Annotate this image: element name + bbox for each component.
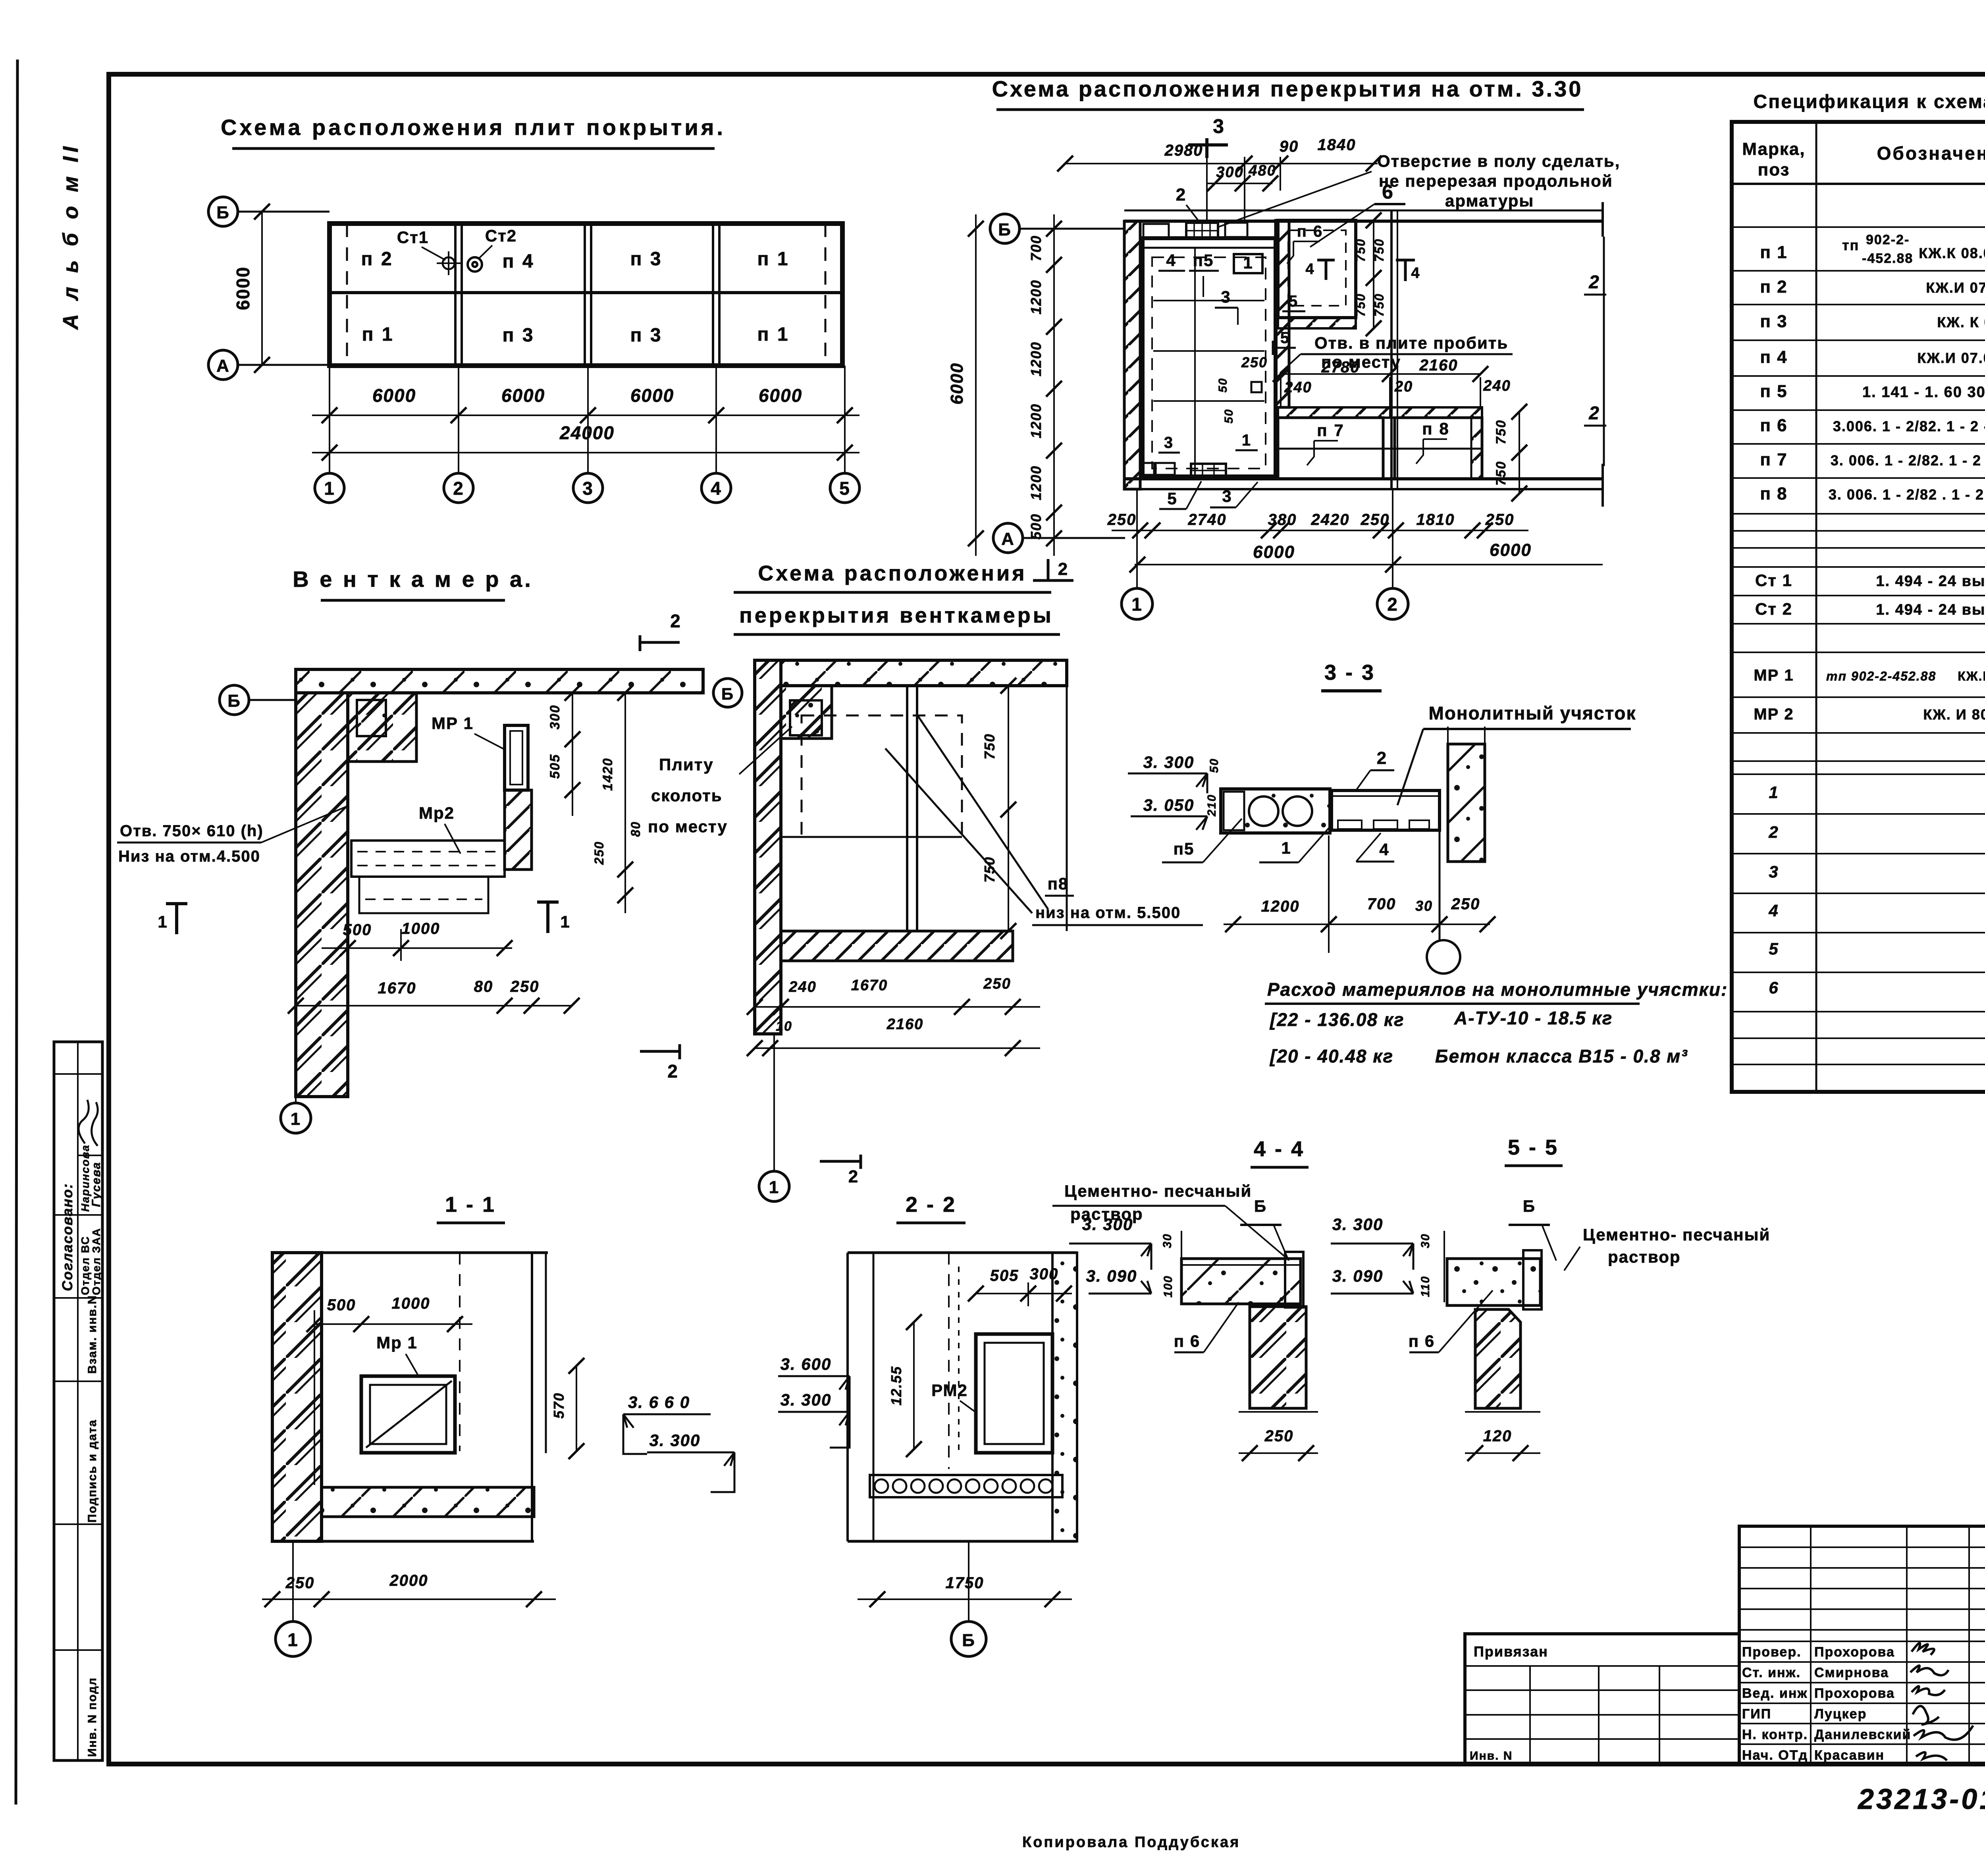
axis circle 1 middle plan — [1122, 489, 1152, 619]
svg-text:500: 500 — [1028, 513, 1044, 540]
axis circle B vent — [220, 685, 296, 715]
s1-1 bottom lines — [272, 1487, 534, 1541]
spec row P2 — [1760, 277, 1985, 297]
svg-text:п 1: п 1 — [362, 324, 394, 345]
svg-text:3. 006. 1 - 2/82. 1 - 2 - 1.: 3. 006. 1 - 2/82. 1 - 2 - 1.0 - 082 — [1831, 452, 1985, 469]
s2-2 bottom hollow slab — [870, 1475, 1062, 1497]
svg-text:1200: 1200 — [1028, 403, 1044, 438]
spec row pos 1 — [1769, 781, 1985, 811]
note: hole in plate punch on site — [1280, 334, 1513, 373]
svg-text:750: 750 — [1353, 238, 1368, 262]
vent floor concrete square — [790, 700, 822, 735]
svg-text:10: 10 — [776, 1019, 792, 1034]
svg-text:1: 1 — [1131, 594, 1143, 615]
spec row P7 — [1760, 450, 1985, 469]
dims 240 20 240 — [1281, 377, 1511, 418]
spec row pos 3 — [1769, 860, 1985, 890]
svg-text:1: 1 — [1243, 253, 1253, 272]
svg-text:80: 80 — [628, 821, 643, 837]
spec table outer border — [1732, 122, 1985, 1092]
svg-text:МР 1: МР 1 — [1754, 667, 1794, 684]
svg-text:5: 5 — [839, 478, 850, 499]
svg-text:Вед. инж: Вед. инж — [1742, 1686, 1808, 1701]
svg-text:п 8: п 8 — [1422, 419, 1449, 438]
svg-text:902-2-: 902-2- — [1866, 232, 1910, 247]
axis circle A left plan — [208, 350, 330, 380]
roof plan outline — [330, 224, 842, 366]
svg-text:КЖ.К 08.00.00.00-01: КЖ.К 08.00.00.00-01 — [1919, 245, 1985, 261]
s4-4 elevation 3.090 — [1086, 1267, 1151, 1294]
svg-text:6000: 6000 — [947, 362, 967, 405]
svg-text:250: 250 — [983, 976, 1011, 992]
s4-4 elevation 3.300 — [1069, 1215, 1151, 1270]
svg-text:Б: Б — [216, 203, 230, 222]
note hole 750x610 — [117, 806, 348, 865]
svg-text:4: 4 — [1166, 251, 1176, 270]
section 5-5 title — [1505, 1136, 1563, 1166]
svg-text:В е н т к а м е р а.: В е н т к а м е р а. — [293, 567, 533, 592]
label 5 flag at note — [1273, 329, 1296, 355]
svg-text:1200: 1200 — [1261, 898, 1300, 915]
dimension 24000 — [312, 422, 860, 461]
svg-text:Цементно- песчаный: Цементно- песчаный — [1583, 1225, 1770, 1244]
s4-4 mortar strip right — [1285, 1252, 1303, 1307]
vent floor right edge line — [1066, 686, 1068, 931]
left stamp column outer — [54, 1042, 102, 1760]
svg-text:п 1: п 1 — [757, 249, 789, 270]
vent floor left wall — [755, 660, 781, 1034]
sheet left edge trim line — [16, 60, 17, 1805]
s1-1 bottom slab concrete — [322, 1487, 534, 1517]
stamp signatures — [79, 1100, 98, 1146]
svg-text:4: 4 — [711, 478, 722, 499]
axis extension lines below roof plan — [330, 366, 845, 472]
svg-text:Ст 1: Ст 1 — [1755, 571, 1792, 590]
svg-text:сколоть: сколоть — [651, 786, 723, 805]
upper interior wall block — [348, 693, 416, 762]
svg-text:750: 750 — [1372, 238, 1386, 262]
s5-5 elevation 3.300 — [1331, 1215, 1413, 1270]
s2-2 dims 505 300 — [968, 1265, 1072, 1306]
svg-text:50: 50 — [1216, 378, 1230, 392]
spec row P4 — [1760, 347, 1985, 367]
section mark 2 bottom vent floor — [820, 1155, 861, 1186]
svg-text:п 8: п 8 — [1760, 484, 1787, 503]
section 1-1 title — [437, 1193, 505, 1223]
svg-text:2: 2 — [670, 611, 681, 631]
svg-text:50: 50 — [1208, 758, 1221, 773]
svg-text:3. 090: 3. 090 — [1086, 1267, 1137, 1285]
axis circle B middle plan — [990, 214, 1125, 243]
svg-text:п5: п5 — [1193, 251, 1214, 270]
svg-text:Прохорова: Прохорова — [1814, 1645, 1895, 1660]
svg-text:2: 2 — [848, 1167, 859, 1186]
svg-text:1: 1 — [1242, 432, 1251, 449]
plate P7 rect — [1278, 418, 1383, 479]
svg-text:Отв. 750× 610 (h): Отв. 750× 610 (h) — [120, 822, 264, 840]
s1-1 left wall hatched — [272, 1253, 322, 1541]
spec row pos 2 — [1768, 820, 1985, 850]
svg-text:Цементно- песчаный: Цементно- песчаный — [1064, 1182, 1252, 1200]
section 2-2 title — [896, 1193, 966, 1223]
s4-4 note cement mortar — [1052, 1182, 1286, 1258]
label 5 at P6 bottom — [1282, 293, 1305, 311]
svg-text:КЖ.К 00.01.00.00: КЖ.К 00.01.00.00 — [1958, 669, 1985, 683]
svg-text:1. 141 - 1. 60 3000-82: 1. 141 - 1. 60 3000-82 — [1862, 384, 1985, 401]
svg-text:Привязан: Привязан — [1474, 1643, 1548, 1660]
spec table header row line — [1732, 183, 1985, 185]
svg-text:30: 30 — [1419, 1233, 1432, 1248]
ref label 6 — [1310, 181, 1405, 247]
svg-text:1: 1 — [560, 912, 570, 931]
svg-text:Гусева: Гусева — [90, 1162, 103, 1207]
svg-text:п 3: п 3 — [630, 249, 662, 270]
svg-text:Б: Б — [227, 691, 241, 711]
axis circle 1 vent floor — [759, 1034, 789, 1201]
plates P7 P8 top hatch band — [1278, 407, 1482, 418]
svg-text:1810: 1810 — [1416, 511, 1455, 528]
svg-text:6000: 6000 — [372, 385, 416, 406]
monolithic rect 3-3 — [1332, 791, 1440, 830]
left wall hatched — [1124, 221, 1140, 489]
T symbol and 4 inside P6 — [1305, 260, 1335, 280]
svg-text:2420: 2420 — [1311, 511, 1350, 528]
svg-text:3: 3 — [1222, 487, 1232, 505]
svg-text:2: 2 — [453, 478, 464, 499]
label p8 niz na otm 5.500 — [1032, 874, 1203, 925]
svg-text:3. 300: 3. 300 — [781, 1390, 832, 1409]
svg-text:Б: Б — [962, 1631, 975, 1650]
title Ventkamera — [293, 567, 533, 600]
s5-5 bottom dim 120 — [1465, 1412, 1540, 1461]
svg-text:1200: 1200 — [1028, 465, 1044, 500]
plate P8 rect — [1395, 418, 1482, 479]
svg-text:Взам. инв.N: Взам. инв.N — [86, 1295, 99, 1374]
svg-text:3: 3 — [1213, 115, 1225, 137]
s2-2 right wall concrete band — [1052, 1253, 1077, 1541]
spec row P5 — [1760, 382, 1985, 401]
spec row MR2 — [1754, 706, 1985, 723]
section mark 1 right — [537, 902, 570, 933]
svg-text:[20 - 40.48 кг: [20 - 40.48 кг — [1269, 1046, 1393, 1066]
svg-text:700: 700 — [1367, 895, 1396, 913]
svg-text:Б: Б — [721, 684, 734, 703]
svg-text:Провер.: Провер. — [1742, 1645, 1802, 1660]
svg-text:Бетон класса В15 - 0.8 м³: Бетон класса В15 - 0.8 м³ — [1435, 1046, 1688, 1066]
vent room dashed inset — [1152, 257, 1266, 469]
svg-text:Марка,: Марка, — [1742, 139, 1805, 159]
svg-text:2160: 2160 — [887, 1016, 924, 1033]
MR1 frame — [505, 725, 528, 790]
svg-text:2: 2 — [1588, 272, 1600, 292]
svg-text:ГИП: ГИП — [1742, 1706, 1771, 1722]
svg-text:5: 5 — [1167, 489, 1177, 508]
svg-text:240: 240 — [788, 979, 816, 995]
labels P5 1 4 s33 — [1162, 819, 1394, 862]
svg-text:240: 240 — [1483, 378, 1511, 394]
vent room plate joint lines — [1153, 248, 1264, 475]
vent dims 80 250 — [592, 821, 643, 913]
svg-text:Мр2: Мр2 — [419, 804, 455, 822]
svg-text:п 1: п 1 — [1760, 243, 1787, 262]
bottom dimension chain small — [1107, 511, 1528, 538]
svg-text:250: 250 — [1451, 895, 1480, 913]
svg-text:750: 750 — [981, 856, 998, 883]
spec row P8 — [1760, 484, 1985, 507]
s2-2 axis circle B — [951, 1541, 986, 1656]
svg-text:Прохорова: Прохорова — [1814, 1686, 1895, 1701]
svg-text:Б: Б — [998, 220, 1012, 239]
svg-text:3. 090: 3. 090 — [1332, 1267, 1384, 1285]
right vertical dims 750 750 at plates — [1494, 404, 1527, 501]
materials line 2 — [1269, 1046, 1688, 1066]
svg-text:2: 2 — [667, 1061, 678, 1082]
title: scheme of roof slabs — [221, 115, 726, 148]
axis circle 1 vent — [281, 1097, 311, 1133]
plates inner line — [1278, 448, 1482, 450]
upper dimensions 2980 90 1840 — [1057, 136, 1382, 222]
svg-text:п 1: п 1 — [757, 324, 789, 345]
svg-text:500: 500 — [327, 1296, 356, 1314]
s2-2 bottom band — [848, 1497, 1077, 1541]
dimension chain 6000 x4 — [312, 385, 860, 423]
title block signatures scribbles — [1910, 1643, 1973, 1760]
svg-text:Ст1: Ст1 — [397, 228, 429, 247]
vent floor top slab band — [781, 660, 1067, 686]
svg-text:Луцкер: Луцкер — [1814, 1706, 1867, 1722]
svg-text:Инв. N подл: Инв. N подл — [86, 1677, 99, 1757]
dims 2780 2160 over plates — [1273, 357, 1488, 382]
s1-1 elevation 3.300 — [647, 1431, 734, 1492]
s5-5 B flag — [1509, 1197, 1556, 1261]
svg-text:Инв. N: Инв. N — [1470, 1749, 1513, 1762]
svg-text:п5: п5 — [1174, 839, 1195, 858]
svg-text:12.55: 12.55 — [888, 1366, 904, 1406]
s1-1 dim 570 — [551, 1358, 584, 1459]
section cut line 2-2 through plan — [1584, 237, 1606, 466]
axis circle A middle plan — [993, 523, 1125, 553]
svg-text:Отдел ВС: Отдел ВС — [79, 1236, 91, 1295]
svg-text:250: 250 — [285, 1574, 315, 1592]
interior wall column hatched — [1276, 220, 1289, 407]
svg-text:250: 250 — [510, 978, 540, 995]
svg-text:Отверстие в полу сделать,: Отверстие в полу сделать, — [1377, 152, 1620, 170]
vent floor dims 10 2160 — [747, 1016, 1040, 1056]
spec row pos 5 — [1769, 937, 1985, 967]
svg-text:3. 600: 3. 600 — [781, 1355, 832, 1373]
svg-text:Расход материялов на монолитны: Расход материялов на монолитные учястки: — [1267, 979, 1728, 1000]
spec row St2 — [1755, 600, 1985, 618]
svg-text:1: 1 — [158, 912, 168, 931]
svg-text:1200: 1200 — [1028, 341, 1044, 376]
svg-text:2: 2 — [1176, 185, 1186, 204]
svg-text:п 7: п 7 — [1760, 450, 1787, 469]
roof plan middle joint line — [330, 291, 842, 294]
svg-text:250: 250 — [592, 841, 606, 865]
right wall concrete 3-3 — [1448, 727, 1485, 862]
spec row St1 — [1755, 571, 1985, 590]
spec row pos 6 — [1769, 976, 1985, 1006]
svg-text:п 3: п 3 — [630, 325, 662, 346]
s5-5 label P6 — [1409, 1290, 1493, 1352]
s5-5 small dims 30 110 — [1419, 1231, 1444, 1302]
svg-text:арматуры: арматуры — [1445, 191, 1534, 210]
svg-text:1000: 1000 — [402, 920, 440, 937]
s1-1 dims 500 1000 — [306, 1295, 472, 1485]
svg-text:250: 250 — [1107, 511, 1137, 528]
svg-text:3: 3 — [582, 478, 594, 499]
svg-text:Плиту: Плиту — [659, 755, 714, 774]
detail circle mark — [1427, 832, 1460, 974]
svg-text:80: 80 — [474, 978, 493, 995]
svg-text:1: 1 — [1281, 839, 1291, 857]
s4-4 bottom dim 250 — [1239, 1412, 1318, 1461]
section 4-4 title — [1251, 1137, 1309, 1167]
svg-text:КЖ.И 07.00.00.00-01: КЖ.И 07.00.00.00-01 — [1917, 350, 1985, 366]
svg-text:505: 505 — [547, 754, 563, 779]
stakan mark St2 — [468, 226, 517, 272]
spec table header texts — [1742, 139, 1985, 179]
svg-text:6000: 6000 — [630, 385, 674, 406]
svg-text:750: 750 — [1494, 420, 1509, 445]
svg-text:2: 2 — [1588, 403, 1600, 423]
svg-text:480: 480 — [1248, 162, 1276, 179]
plate labels P7 P8 — [1307, 419, 1450, 465]
svg-text:250: 250 — [1264, 1427, 1294, 1445]
below plan labels 5 3 — [1159, 481, 1258, 509]
s4-4 slab concrete — [1181, 1259, 1301, 1304]
svg-text:2980: 2980 — [1164, 142, 1203, 159]
label MR1 — [432, 714, 503, 749]
ref labels inside room — [1158, 185, 1268, 453]
svg-text:6: 6 — [1769, 978, 1779, 997]
svg-text:РМ2: РМ2 — [931, 1381, 968, 1400]
stamp texts rotated — [59, 1144, 103, 1757]
svg-text:750: 750 — [1372, 293, 1386, 316]
axis circle B left plan — [208, 197, 330, 226]
svg-text:1: 1 — [1769, 783, 1779, 802]
svg-text:1670: 1670 — [851, 977, 888, 994]
T symbol 4 right — [1396, 260, 1420, 281]
vent floor dims 750 750 — [981, 678, 1016, 939]
vent floor dims 240 1670 250 — [747, 976, 1040, 1015]
svg-text:2: 2 — [1768, 823, 1779, 841]
s1-1 axis circle 1 — [276, 1541, 310, 1656]
svg-text:КЖ. И 80. 02. 00. 00: КЖ. И 80. 02. 00. 00 — [1923, 706, 1985, 723]
s1-1 top line — [272, 1253, 548, 1541]
svg-text:п 3: п 3 — [1760, 312, 1787, 331]
svg-text:5: 5 — [1280, 329, 1290, 347]
section 3-3 title — [1321, 661, 1382, 691]
svg-text:3. 300: 3. 300 — [1143, 753, 1195, 771]
svg-text:Б: Б — [1523, 1197, 1536, 1215]
svg-text:4: 4 — [1768, 901, 1779, 920]
svg-text:тп 902-2-452.88: тп 902-2-452.88 — [1826, 669, 1936, 683]
svg-text:Спецификация к схемам распо: Спецификация к схемам расположения плит … — [1754, 91, 1985, 112]
svg-text:1750: 1750 — [946, 1574, 984, 1592]
subroom P6 bottom hatch band — [1278, 318, 1356, 328]
axis circles 1-5 — [315, 473, 860, 503]
MR2 band — [351, 841, 505, 913]
svg-text:А-ТУ-10 - 18.5 кг: А-ТУ-10 - 18.5 кг — [1454, 1008, 1613, 1028]
s5-5 column hatched — [1475, 1309, 1521, 1408]
svg-text:210: 210 — [1205, 794, 1218, 817]
s4-4 label P6 — [1174, 1302, 1239, 1352]
section mark 3 top — [1188, 115, 1228, 221]
handwritten archive number — [1857, 1777, 1985, 1815]
elevation 3.300 s33 — [1128, 753, 1207, 793]
svg-text:750: 750 — [1494, 461, 1509, 486]
section mark 2 top — [640, 611, 681, 651]
s4-4 B flag — [1240, 1197, 1289, 1261]
svg-text:Н. контр.: Н. контр. — [1742, 1727, 1808, 1742]
left dimension chain 700 1200x4 500 — [1028, 214, 1062, 556]
svg-text:3: 3 — [1221, 287, 1231, 306]
s2-2 RM2 frame — [976, 1334, 1052, 1453]
svg-text:1. 494 - 24 вып. 1: 1. 494 - 24 вып. 1 — [1876, 602, 1985, 618]
s1-1 label Mr1 — [376, 1333, 418, 1375]
axis circle B vent floor — [713, 679, 742, 707]
vent dims 1670 80 250 — [288, 978, 580, 1014]
svg-text:Ст. инж.: Ст. инж. — [1742, 1665, 1801, 1680]
section mark 2 top vent floor — [1033, 559, 1073, 580]
svg-text:2: 2 — [1377, 748, 1387, 768]
svg-text:А: А — [216, 356, 230, 376]
svg-text:6000: 6000 — [233, 266, 253, 310]
title: scheme of vent floor line1 — [734, 561, 1051, 592]
svg-text:1: 1 — [291, 1109, 301, 1129]
svg-text:Схема расположения перекрыти: Схема расположения перекрытия на отм. 3.… — [992, 76, 1583, 101]
materials line 1 — [1269, 1008, 1613, 1030]
label P6 — [1287, 223, 1323, 264]
s1-1 elevation 3.660 — [623, 1393, 711, 1454]
hollow core slab section 3-3 — [1221, 789, 1330, 833]
s1-1 bottom dims 250 2000 — [262, 1572, 556, 1607]
svg-text:[22 - 136.08 кг: [22 - 136.08 кг — [1269, 1009, 1405, 1030]
svg-text:3: 3 — [1164, 434, 1174, 451]
stakan mark St1 — [397, 228, 461, 275]
plate joint lines — [347, 224, 825, 366]
s5-5 elevation 3.090 — [1331, 1267, 1413, 1294]
svg-text:2 - 2: 2 - 2 — [906, 1193, 956, 1217]
svg-text:1200: 1200 — [1028, 280, 1044, 314]
svg-text:Смирнова: Смирнова — [1814, 1665, 1889, 1680]
svg-text:1840: 1840 — [1318, 136, 1356, 154]
s2-2 dashed verticals — [949, 1253, 959, 1469]
svg-text:2: 2 — [1058, 559, 1068, 579]
svg-text:2: 2 — [1387, 594, 1398, 615]
spec row P6 — [1760, 416, 1985, 438]
svg-text:3: 3 — [1769, 862, 1779, 881]
plate labels — [361, 249, 789, 346]
s5-5 note cement mortar — [1564, 1225, 1770, 1271]
svg-text:2160: 2160 — [1419, 357, 1458, 374]
svg-text:1420: 1420 — [600, 758, 615, 791]
vent floor room inner line — [781, 836, 962, 838]
svg-text:п 2: п 2 — [361, 249, 393, 270]
materials expenditure heading — [1265, 979, 1728, 1004]
svg-text:1000: 1000 — [392, 1295, 430, 1312]
title: floor scheme at elev 3.30 — [992, 76, 1584, 110]
svg-text:КЖ. К 08.00.00.00: КЖ. К 08.00.00.00 — [1937, 314, 1985, 330]
svg-text:Схема расположения плит пок: Схема расположения плит покрытия. — [221, 115, 726, 140]
spec row P1 — [1760, 232, 1985, 266]
svg-text:п 4: п 4 — [502, 251, 534, 272]
svg-text:505: 505 — [990, 1267, 1019, 1284]
svg-text:2000: 2000 — [389, 1572, 428, 1589]
svg-text:п 2: п 2 — [1760, 277, 1787, 297]
svg-text:3 - 3: 3 - 3 — [1324, 661, 1375, 684]
